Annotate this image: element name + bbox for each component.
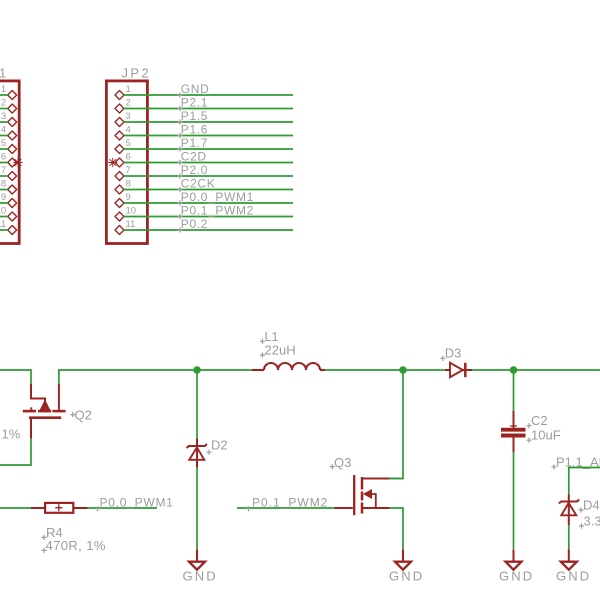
JP1 pin 9: [8, 199, 17, 208]
JP1 pin 7: [8, 172, 17, 181]
junction node at C2 branch: [510, 366, 518, 374]
net label P2.1: [177, 106, 182, 111]
wire net P0.2 from JP2 pin 11: [124, 229, 293, 231]
JP1 pin 11: [8, 226, 17, 235]
wire Q2 gate net to left edge: [0, 439, 31, 465]
svg-text:D4: D4: [583, 497, 600, 512]
wire Q3 source to ground: [390, 508, 404, 550]
svg-text:GND: GND: [183, 568, 218, 583]
svg-text:8: 8: [126, 178, 131, 189]
svg-text:2: 2: [126, 97, 131, 108]
svg-text:P2.1: P2.1: [181, 96, 208, 110]
wire net P1.7 from JP2 pin 5: [124, 148, 293, 150]
svg-text:P2.0: P2.0: [181, 163, 208, 177]
svg-text:P0.1_PWM2: P0.1_PWM2: [252, 496, 328, 510]
ground symbol GND (C2): [513, 550, 515, 562]
net label P1.6: [177, 133, 182, 138]
svg-text:2: 2: [1, 97, 6, 108]
wire net P1.1_ALE to D4: [569, 468, 600, 495]
R4 origin cross: [55, 504, 62, 511]
junction node at Q3 drain branch: [399, 366, 407, 374]
value 470R, 1%: [41, 548, 46, 553]
net label P2.0: [177, 173, 182, 178]
JP2 pin 7: [115, 172, 124, 181]
connector JP1 (partially visible at left edge): [0, 81, 19, 244]
value 10uF: [526, 438, 531, 443]
wire to JP1 pin 7: [0, 175, 8, 177]
resistor R4: [31, 507, 45, 509]
label Q3: [330, 464, 335, 469]
svg-text:C2D: C2D: [181, 150, 207, 164]
wire Q2 drain to junction and L1: [59, 370, 252, 384]
wire net C2D from JP2 pin 6: [124, 162, 293, 164]
wire L1 to D3 anode with Q3 junction: [325, 369, 445, 371]
svg-text:P1.7: P1.7: [181, 136, 208, 150]
svg-text:P1.5: P1.5: [181, 109, 208, 123]
label C2: [526, 423, 531, 428]
JP2 pin 11: [115, 226, 124, 235]
diode D4 (zener): [559, 495, 579, 526]
svg-text:P0.1_PWM2: P0.1_PWM2: [181, 204, 254, 218]
diode D2 (zener): [187, 438, 207, 467]
wire net GND from JP2 pin 1: [124, 94, 293, 96]
JP1 pin 5: [8, 145, 17, 154]
wire to JP1 pin 2: [0, 108, 8, 110]
wire net C2CK from JP2 pin 8: [124, 189, 293, 191]
wire to JP1 pin 6: [0, 162, 8, 164]
svg-text:D2: D2: [211, 438, 228, 453]
svg-text:5: 5: [1, 138, 6, 149]
wire to JP1 pin 4: [0, 135, 8, 137]
wire net P0.1_PWM2 from JP2 pin 10: [124, 216, 293, 218]
svg-text:1: 1: [126, 84, 131, 95]
wire to JP1 pin 9: [0, 202, 8, 204]
net label P0.0_PWM1: [177, 200, 182, 205]
svg-text:D3: D3: [445, 345, 462, 360]
wire top rail into Q2 source: [0, 370, 31, 384]
wire net P2.0 from JP2 pin 7: [124, 175, 293, 177]
svg-text:3: 3: [1, 111, 6, 122]
JP1 origin marker (asterisk at pin 6): [13, 158, 22, 167]
svg-text:11: 11: [0, 219, 6, 230]
wire D3 cathode to output rail: [472, 369, 600, 371]
svg-text:470R, 1%: 470R, 1%: [46, 538, 106, 553]
net label P1.7: [177, 146, 182, 151]
wire Q3 drain green segment: [390, 478, 404, 480]
svg-text:9: 9: [1, 192, 6, 203]
label D3: [440, 356, 445, 361]
JP2 pin 3: [115, 118, 124, 127]
svg-text:JP2: JP2: [122, 66, 152, 81]
wire net P0.0_PWM1 from R4: [0, 507, 31, 509]
svg-text:9: 9: [126, 192, 131, 203]
svg-text:Q2: Q2: [75, 408, 92, 423]
ground symbol GND (D2 branch): [196, 550, 198, 562]
wire C2 branch from rail: [513, 370, 515, 411]
wire net P0.1_PWM2 to Q3 gate: [237, 507, 335, 509]
svg-text:1: 1: [1, 84, 6, 95]
capacitor C2: [501, 411, 526, 452]
wire to JP1 pin 1: [0, 94, 8, 96]
wire to JP1 pin 10: [0, 216, 8, 218]
svg-text:7: 7: [1, 165, 6, 176]
wire net P0.0_PWM1 from JP2 pin 9: [124, 202, 293, 204]
JP2 pin 4: [115, 131, 124, 140]
JP2 pin 8: [115, 185, 124, 194]
wire D2 branch down from rail: [196, 370, 198, 438]
JP2 pin 2: [115, 104, 124, 113]
svg-text:P0.0_PWM1: P0.0_PWM1: [181, 190, 254, 204]
wire D2 anode to ground: [196, 468, 198, 550]
svg-text:GND: GND: [556, 568, 591, 583]
label D4: [578, 507, 583, 512]
wire Q3 drain branch: [390, 370, 404, 479]
transistor Q3 (N-channel MOSFET): [335, 475, 390, 515]
svg-text:22uH: 22uH: [265, 343, 296, 358]
net label P0.1_PWM2: [177, 214, 182, 219]
wire to JP1 pin 3: [0, 121, 8, 123]
svg-text:C2CK: C2CK: [181, 177, 216, 191]
net label GND: [177, 92, 182, 97]
label L1: [260, 339, 265, 344]
svg-text:6: 6: [1, 151, 6, 162]
svg-text:JP1: JP1: [0, 66, 9, 81]
JP2 pin 6: [115, 158, 124, 167]
value 3.3V: [579, 523, 584, 528]
connector JP2: [106, 81, 147, 244]
wire to JP1 pin 11: [0, 229, 8, 231]
junction node at D2 branch: [193, 366, 201, 374]
ground symbol GND (D4): [568, 550, 570, 562]
JP2 origin marker (asterisk at pin 6): [108, 158, 117, 167]
net label P0.2: [177, 227, 182, 232]
net label P0.1_PWM2: [246, 506, 251, 511]
net label C2CK: [177, 187, 182, 192]
wire to JP1 pin 5: [0, 148, 8, 150]
net label P1.1_ALE: [551, 464, 556, 469]
wire net P1.6 from JP2 pin 4: [124, 135, 293, 137]
C2 origin cross: [510, 423, 517, 430]
svg-text:GND: GND: [181, 82, 210, 96]
svg-text:3.3V: 3.3V: [584, 513, 600, 528]
JP2 pin 1: [115, 91, 124, 100]
wire net P2.1 from JP2 pin 2: [124, 108, 293, 110]
wire to JP1 pin 8: [0, 189, 8, 191]
JP2 pin 9: [115, 199, 124, 208]
svg-text:11: 11: [126, 219, 136, 230]
inductor L1 22uH: [252, 363, 325, 370]
JP1 pin 6: [8, 158, 17, 167]
svg-text:Q3: Q3: [334, 455, 351, 470]
svg-text:7: 7: [126, 165, 131, 176]
label Q2: [70, 412, 75, 417]
wire D4 to ground: [568, 525, 570, 550]
svg-text:3: 3: [126, 111, 131, 122]
transistor Q2 (P-channel MOSFET): [23, 384, 66, 439]
wire net P1.5 from JP2 pin 3: [124, 121, 293, 123]
JP1 pin 10: [8, 212, 17, 221]
wire C2 to ground: [513, 452, 515, 550]
svg-text:GND: GND: [499, 568, 534, 583]
svg-text:P0.0_PWM1: P0.0_PWM1: [100, 496, 174, 510]
svg-text:GND: GND: [389, 568, 424, 583]
svg-text:4: 4: [1, 124, 6, 135]
svg-text:1%: 1%: [2, 427, 21, 442]
svg-text:P1.6: P1.6: [181, 123, 208, 137]
svg-text:10: 10: [126, 205, 137, 216]
svg-text:10uF: 10uF: [531, 428, 561, 443]
svg-text:8: 8: [1, 178, 6, 189]
JP2 pin 10: [115, 212, 124, 221]
ground symbol GND (Q3 source): [402, 550, 404, 562]
JP1 pin 1: [8, 91, 17, 100]
svg-text:P0.2: P0.2: [181, 217, 208, 231]
svg-text:5: 5: [126, 138, 131, 149]
svg-text:C2: C2: [531, 413, 548, 428]
label D2: [206, 450, 211, 455]
JP1 pin 4: [8, 131, 17, 140]
value 22uH: [260, 352, 265, 357]
svg-text:6: 6: [126, 151, 131, 162]
JP1 pin 2: [8, 104, 17, 113]
JP2 pin 5: [115, 145, 124, 154]
svg-text:4: 4: [126, 124, 131, 135]
net label C2D: [177, 160, 182, 165]
svg-text:10: 10: [0, 205, 6, 216]
JP1 pin 3: [8, 118, 17, 127]
diode D3: [445, 363, 472, 377]
JP1 pin 8: [8, 185, 17, 194]
net label P1.5: [177, 119, 182, 124]
label R4: [41, 535, 46, 540]
net label P0.0_PWM1: [95, 506, 100, 511]
